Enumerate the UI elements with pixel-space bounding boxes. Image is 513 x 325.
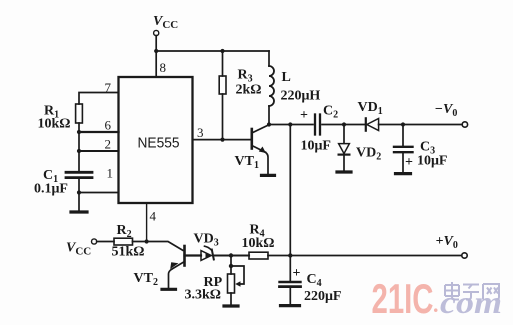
svg-text:+: +	[293, 266, 301, 281]
svg-text:8: 8	[160, 60, 167, 75]
svg-text:10μF: 10μF	[301, 139, 332, 154]
junction C3 tap	[401, 122, 405, 126]
svg-text:10kΩ: 10kΩ	[242, 236, 275, 251]
junction RP tap	[229, 253, 233, 257]
transistor VT1	[251, 129, 254, 149]
svg-text:com: com	[440, 284, 502, 320]
wire R1 to pin6	[78, 123, 80, 132]
wire C1 to pin1	[78, 178, 80, 193]
wire Vcc to R2	[97, 241, 114, 243]
capacitor C3	[402, 125, 404, 147]
ground (C4)	[281, 304, 300, 307]
capacitor C2	[314, 115, 316, 135]
svg-text:1: 1	[107, 166, 114, 181]
wire pin 1	[79, 192, 119, 194]
wire to ground	[78, 193, 80, 212]
ground (C3)	[396, 172, 411, 175]
wire VD3 to R4	[213, 254, 249, 256]
junction	[154, 49, 158, 53]
junction pin3/R3	[220, 138, 224, 142]
svg-text:+: +	[405, 155, 413, 170]
ground (C1)	[71, 210, 87, 213]
inductor L	[268, 51, 270, 66]
wire pin 3 to VT1 base	[193, 139, 252, 141]
junction vertical link top	[288, 122, 292, 126]
node Vcc terminal (left)	[92, 239, 97, 244]
svg-text:2: 2	[105, 137, 112, 152]
resistor R1	[76, 104, 83, 123]
svg-text:51kΩ: 51kΩ	[112, 245, 145, 260]
svg-text:6: 6	[105, 118, 112, 133]
svg-text:3: 3	[197, 125, 204, 140]
wire to C1	[78, 151, 80, 172]
wire pin 7	[79, 93, 119, 105]
svg-text:10μF: 10μF	[417, 154, 448, 169]
capacitor C1	[66, 171, 92, 174]
capacitor C4	[289, 256, 291, 282]
svg-text:.: .	[433, 292, 439, 317]
diode VD3	[201, 251, 211, 261]
diode VD1	[365, 118, 367, 130]
svg-text:3.3kΩ: 3.3kΩ	[185, 288, 222, 303]
watermark dianziwang	[445, 282, 499, 300]
wire C2 to VD1	[322, 124, 366, 126]
svg-text:7: 7	[105, 80, 112, 95]
junction pin6	[77, 130, 81, 134]
diode VD2	[343, 125, 345, 144]
wire R3 to pin3 wire	[222, 94, 224, 140]
junction R3 top	[220, 49, 224, 53]
transistor VT2	[183, 246, 186, 266]
wire R4 to +V0	[268, 255, 462, 257]
junction VD2 tap	[342, 122, 346, 126]
wire pin 2	[79, 150, 119, 152]
svg-text:220μF: 220μF	[304, 289, 342, 304]
wire down	[78, 132, 80, 151]
junction pin1	[77, 190, 81, 194]
ground (RP)	[224, 304, 238, 307]
junction C4 tap	[288, 253, 292, 257]
wire R3 from rail	[222, 51, 224, 76]
svg-text:2kΩ: 2kΩ	[236, 83, 262, 98]
svg-text:L: L	[282, 70, 291, 85]
resistor R4	[249, 252, 268, 259]
node -V0 terminal	[462, 122, 467, 127]
resistor R3	[219, 76, 226, 94]
junction pin2	[77, 149, 81, 153]
junction pin4	[145, 239, 149, 243]
wire top rail Vcc to L	[156, 50, 269, 52]
ground (VT1)	[262, 174, 275, 177]
node +V0 terminal	[462, 253, 467, 258]
svg-text:+: +	[300, 108, 308, 123]
ground (VT2)	[162, 288, 176, 291]
wire vertical link	[289, 125, 291, 256]
svg-text:21IC: 21IC	[372, 275, 434, 322]
svg-text:NE555: NE555	[138, 135, 180, 152]
wire pin 4	[146, 203, 148, 242]
node Vcc terminal (top)	[154, 30, 159, 35]
potentiometer RP	[230, 256, 232, 275]
wire pin 6	[79, 131, 119, 133]
svg-text:4: 4	[150, 209, 157, 224]
ground (VD2)	[337, 170, 351, 173]
wire collector rail to C2	[269, 124, 313, 126]
wire VD1 to -V0	[379, 124, 463, 126]
junction VT1 collector	[267, 122, 271, 126]
wire Vcc to pin 8	[155, 36, 157, 77]
wire R2 to VT2 base	[133, 242, 183, 251]
svg-text:220μH: 220μH	[281, 89, 321, 104]
svg-text:10kΩ: 10kΩ	[38, 117, 71, 132]
svg-text:0.1μF: 0.1μF	[34, 182, 68, 197]
IC U1 NE555 body	[119, 77, 193, 203]
resistor R2	[114, 238, 133, 245]
